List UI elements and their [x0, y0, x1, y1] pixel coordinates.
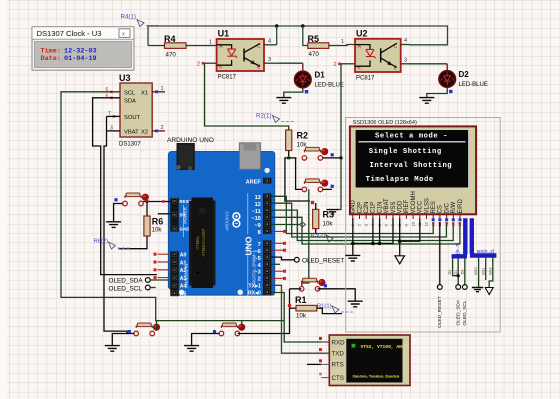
- svg-text:BS0: BS0: [474, 267, 478, 274]
- svg-text:RES: RES: [431, 201, 437, 213]
- svg-text:VBAT: VBAT: [124, 130, 139, 136]
- svg-text:2: 2: [197, 62, 200, 68]
- svg-text:SCL: SCL: [124, 90, 136, 96]
- svg-text:OLED_RESET: OLED_RESET: [437, 296, 443, 328]
- wire SDA net: [93, 98, 157, 275]
- LED D2: [439, 71, 456, 88]
- svg-text:PC817: PC817: [218, 75, 237, 81]
- svg-text:2: 2: [334, 62, 337, 68]
- Arduino UNO module: [167, 137, 275, 295]
- svg-text:D1: D1: [454, 270, 458, 275]
- wire RTS stub: [307, 363, 321, 365]
- push button SW1: [302, 156, 307, 161]
- unconnected pins A0-A3: [158, 253, 169, 255]
- node R3 top: [311, 201, 314, 204]
- pin U2.2: [341, 63, 355, 65]
- svg-text:OLED_SDA: OLED_SDA: [109, 278, 144, 285]
- wire OLED CS to reset terminal: [439, 222, 441, 285]
- pin U3.1 X1: [152, 91, 165, 93]
- svg-text:8: 8: [258, 230, 261, 236]
- OLED body: [350, 126, 476, 214]
- Arduino header power+analog: [170, 198, 178, 232]
- pin U1.4: [264, 44, 277, 46]
- terminal OLED_SCL(bottom): [462, 285, 467, 290]
- svg-text:7: 7: [258, 242, 261, 248]
- svg-text:CTS: CTS: [332, 375, 344, 382]
- svg-text:C1P: C1P: [371, 202, 377, 214]
- unconnected digital pins: [271, 230, 283, 232]
- SSD1306 module boundary: [346, 118, 501, 333]
- svg-text:R2(1): R2(1): [256, 112, 271, 119]
- Arduino header AREF+digital: [263, 178, 271, 184]
- svg-text:OLED_SDA: OLED_SDA: [456, 299, 462, 325]
- svg-text:LED-BLUE: LED-BLUE: [315, 83, 344, 89]
- push button SW4: [134, 331, 139, 336]
- Arduino MCU chip: [189, 198, 216, 289]
- svg-text:BS1: BS1: [481, 267, 485, 274]
- svg-text:VDD: VDD: [398, 200, 404, 213]
- push button SW2: [302, 187, 307, 192]
- wire button3 left / R1 net: [289, 289, 291, 334]
- svg-text:R2: R2: [297, 131, 309, 141]
- svg-text:E/RD: E/RD: [458, 198, 464, 213]
- opto-coupler U2: [355, 39, 401, 72]
- svg-text:Interval Shotting: Interval Shotting: [370, 162, 453, 170]
- svg-text:DS1307: DS1307: [119, 142, 141, 148]
- svg-text:4: 4: [404, 38, 407, 44]
- pin U1.3: [264, 62, 278, 64]
- wire SW area down: [302, 189, 309, 286]
- svg-text:01-04-19: 01-04-19: [64, 55, 97, 63]
- svg-text:3: 3: [268, 57, 271, 63]
- ground D1: [276, 98, 291, 104]
- LED D1: [295, 71, 312, 88]
- DS1307 clock popup window: [32, 27, 134, 70]
- svg-text:470: 470: [166, 52, 177, 59]
- opto-coupler U1: [217, 39, 264, 71]
- wire OLED VDD/VCC: [399, 218, 401, 256]
- svg-text:GND: GND: [180, 226, 191, 231]
- svg-text:SSD1306 OLED (128x64): SSD1306 OLED (128x64): [353, 120, 418, 126]
- svg-text:1: 1: [161, 86, 164, 92]
- svg-text:BS[0..2]: BS[0..2]: [477, 249, 494, 255]
- ground BS0: [472, 288, 483, 292]
- svg-text:Timelapse Mode: Timelapse Mode: [366, 176, 434, 184]
- wire R2b to SW2: [296, 158, 302, 190]
- svg-text:D1: D1: [315, 71, 326, 80]
- wire RX to RXD: [271, 293, 329, 343]
- svg-text:VT52, VT100, ANSI: VT52, VT100, ANSI: [361, 344, 408, 350]
- terminal OLED_SDA(bottom): [456, 285, 461, 290]
- svg-text:D0: D0: [460, 270, 464, 275]
- svg-text:10: 10: [410, 221, 415, 226]
- wire U1.K to R2: [205, 63, 289, 130]
- ground SW3: [348, 301, 363, 307]
- svg-text:CS: CS: [438, 205, 444, 213]
- svg-text:10k: 10k: [323, 221, 334, 228]
- svg-text:10k: 10k: [152, 227, 163, 234]
- resistor R3: [313, 209, 319, 228]
- svg-text:VBAT: VBAT: [384, 198, 390, 214]
- OLED screen: [355, 130, 468, 188]
- node top rail / R5: [301, 24, 305, 28]
- bus taps BS: [478, 258, 480, 287]
- push button SW-RESET: [123, 201, 128, 206]
- svg-text:R/W: R/W: [451, 202, 457, 214]
- svg-text:R4(1): R4(1): [121, 14, 136, 21]
- svg-text:RXD: RXD: [332, 339, 346, 346]
- node top rail / U1 C: [275, 24, 279, 28]
- wire D2 cathode: [427, 87, 447, 97]
- svg-text:U2: U2: [356, 28, 368, 38]
- svg-text:A5: A5: [180, 292, 187, 298]
- svg-text:12: 12: [424, 221, 429, 226]
- svg-text:X2: X2: [141, 130, 148, 136]
- svg-text:OLED_SCL: OLED_SCL: [109, 285, 143, 292]
- push button SW3: [299, 287, 304, 292]
- svg-text:ARDUINO UNO: ARDUINO UNO: [167, 137, 214, 144]
- wire U2.K down: [337, 64, 341, 210]
- svg-text:3: 3: [404, 58, 407, 64]
- svg-text:~10: ~10: [251, 216, 261, 222]
- svg-text:C1N: C1N: [377, 201, 383, 213]
- ground SW5: [184, 346, 199, 352]
- wire SW5 ball up: [241, 321, 243, 330]
- svg-text:VSS: VSS: [391, 201, 397, 213]
- svg-text:1: 1: [341, 39, 344, 45]
- svg-text:VCC: VCC: [418, 200, 424, 213]
- svg-text:RTS: RTS: [332, 362, 344, 369]
- svg-text:1: 1: [209, 40, 212, 46]
- power arrow BS: [485, 288, 493, 295]
- wire D1 cathode: [284, 88, 303, 98]
- wire 5V: [158, 213, 171, 215]
- ground U2.K: [327, 210, 339, 214]
- svg-text:Date:: Date:: [41, 55, 61, 63]
- wire SW-RESET gnd: [114, 204, 123, 222]
- svg-text:IREF: IREF: [404, 199, 410, 213]
- wire SW5 right to R1: [238, 333, 290, 335]
- Arduino logo + UNO: [225, 211, 254, 256]
- sheet left margin: [0, 0, 7, 399]
- terminal OLED_RESET(left): [294, 257, 299, 262]
- svg-text:A0: A0: [180, 253, 187, 259]
- svg-text:SOUT: SOUT: [124, 115, 141, 121]
- power arrow OLED: [395, 256, 405, 264]
- wire SOUT net: [104, 116, 128, 333]
- svg-text:470: 470: [309, 51, 320, 58]
- svg-text:U1: U1: [218, 29, 230, 39]
- svg-text:Select a mode -: Select a mode -: [375, 133, 448, 141]
- svg-text:4: 4: [268, 39, 271, 45]
- svg-text:2: 2: [161, 125, 164, 131]
- wire pin4 branch: [271, 263, 280, 265]
- svg-text:VCOMH: VCOMH: [411, 191, 417, 213]
- svg-text:SDA: SDA: [124, 98, 136, 104]
- pin U2.3: [401, 63, 409, 65]
- resistor R2: [286, 130, 292, 151]
- wire TX to TXD: [271, 285, 329, 353]
- svg-text:10k: 10k: [296, 313, 307, 320]
- terminal OLED_RESET(bottom): [437, 285, 442, 290]
- pin U3.2 X2: [152, 130, 165, 132]
- ground OLED: [345, 255, 360, 261]
- wire pin11 to OLED R/W: [271, 210, 453, 240]
- virtual terminal: [329, 335, 410, 386]
- wire OLED GND/VSS to ground: [352, 218, 354, 255]
- svg-text:X1: X1: [141, 90, 148, 96]
- svg-text:ATMEL: ATMEL: [195, 235, 200, 250]
- wire pin12 to OLED D/C: [271, 203, 446, 237]
- svg-text:DS1307 Clock - U3: DS1307 Clock - U3: [37, 29, 102, 38]
- svg-text:LED-BLUE: LED-BLUE: [459, 82, 488, 88]
- wire pin10 to OLED E/RD: [271, 217, 460, 244]
- wire SW4 gnd: [112, 334, 134, 346]
- wire SW3 left: [290, 288, 302, 290]
- bus BS[0..2]: [470, 218, 496, 255]
- wire pin9 stub: [271, 224, 299, 226]
- svg-text:AREF: AREF: [246, 179, 262, 185]
- svg-text:D[0..7]: D[0..7]: [455, 243, 461, 257]
- ground SW4: [105, 346, 120, 352]
- svg-text:OLED_RESET: OLED_RESET: [302, 257, 344, 264]
- svg-text:R1(1): R1(1): [317, 304, 332, 310]
- svg-text:ATMEGA328P: ATMEGA328P: [201, 228, 206, 256]
- svg-text:~9: ~9: [254, 223, 260, 229]
- svg-text:BS2: BS2: [488, 267, 492, 274]
- svg-text:D/C: D/C: [444, 203, 450, 214]
- svg-text:UNO: UNO: [244, 236, 254, 255]
- svg-text:TXD: TXD: [332, 351, 345, 358]
- pin U2.4: [401, 44, 409, 46]
- wire SW3 right to gnd: [318, 289, 355, 301]
- svg-text:R6: R6: [152, 217, 164, 227]
- svg-text:C2N: C2N: [364, 201, 370, 213]
- svg-text:PC817: PC817: [356, 76, 375, 82]
- svg-text:ANALOG IN: ANALOG IN: [184, 264, 189, 289]
- svg-text:Single Shotting: Single Shotting: [369, 148, 442, 156]
- wire SW4 ball up: [156, 321, 158, 330]
- bus D[0..7]: [452, 218, 467, 256]
- svg-text:RX◂0: RX◂0: [248, 291, 261, 297]
- svg-text:Xmodem,Ymodem,Zmodem: Xmodem,Ymodem,Zmodem: [353, 375, 400, 380]
- svg-text:12: 12: [255, 202, 261, 208]
- ground SW-RESET: [106, 222, 121, 228]
- svg-text:2: 2: [258, 277, 261, 283]
- wire U2.E to D2: [409, 63, 447, 65]
- wire SCL net: [61, 92, 284, 321]
- ground D2: [419, 98, 434, 104]
- pin U1.2: [205, 62, 217, 64]
- svg-text:D2: D2: [448, 270, 452, 275]
- wire U1.E to D1: [278, 62, 303, 64]
- svg-text:R6(2): R6(2): [94, 239, 109, 245]
- svg-text:D2: D2: [459, 70, 470, 79]
- svg-text:GND: GND: [351, 200, 357, 214]
- svg-text:U3: U3: [119, 73, 131, 83]
- resistor R6: [146, 202, 148, 217]
- svg-text:R3: R3: [323, 210, 335, 220]
- bus taps D: [453, 259, 459, 276]
- svg-text:ARDUINO: ARDUINO: [225, 211, 230, 231]
- chip U3 DS1307: [120, 83, 152, 137]
- svg-text:~11: ~11: [252, 209, 261, 215]
- svg-text:5: 5: [106, 94, 109, 100]
- svg-text:13: 13: [255, 195, 261, 201]
- svg-text:x: x: [122, 31, 125, 37]
- wire top rail: [148, 26, 448, 46]
- wire reset button to RESET pin: [143, 201, 170, 203]
- wire SW5 gnd: [192, 334, 220, 346]
- wire pin13 to OLED RES: [271, 196, 433, 233]
- svg-text:OLED_SCL: OLED_SCL: [462, 300, 468, 325]
- push button SW5: [219, 331, 224, 336]
- svg-text:VLSS: VLSS: [424, 198, 430, 213]
- svg-text:C2P: C2P: [357, 202, 363, 214]
- svg-text:R1: R1: [295, 295, 307, 305]
- node R2 bottom: [287, 156, 290, 159]
